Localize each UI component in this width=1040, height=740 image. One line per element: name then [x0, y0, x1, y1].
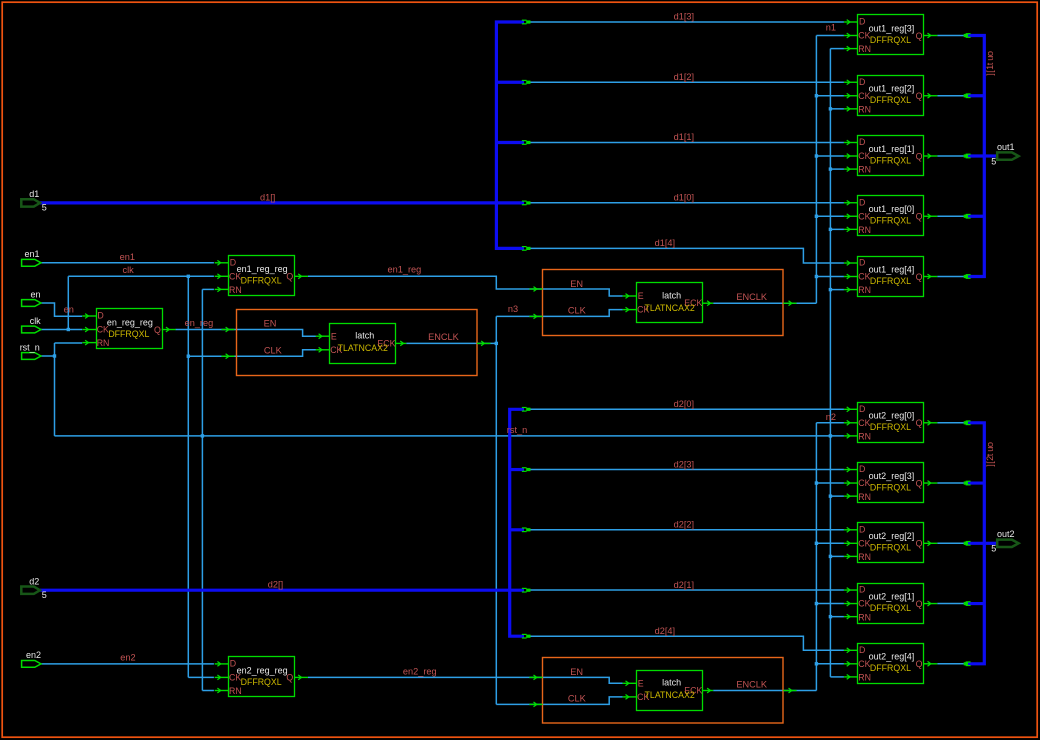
input bus port d2	[21, 577, 47, 600]
svg-text:Q: Q	[916, 659, 923, 669]
wire clk: branch to en2_reg_reg CK	[188, 676, 214, 678]
junction rst_n branch	[829, 167, 832, 170]
svg-text:d1: d1	[29, 189, 39, 199]
flip-flop out2_reg[1] (out2_reg[1] DFFRQXL)	[844, 584, 937, 624]
junction n1 branch	[815, 94, 818, 97]
wire rst_n: branch to out1_reg RN row 3	[830, 228, 844, 230]
svg-text:ENCLK: ENCLK	[736, 680, 768, 690]
wire out1[0] Q	[937, 215, 964, 217]
svg-text:out2_reg[4]: out2_reg[4]	[869, 652, 915, 662]
svg-text:CLK: CLK	[568, 306, 587, 316]
wire rst_n: branch to out2_reg RN row 4	[830, 676, 844, 678]
wire out2[0] Q	[937, 422, 964, 424]
svg-text:Q: Q	[916, 212, 923, 222]
svg-text:n1: n1	[826, 22, 836, 32]
flip-flop out2_reg[0] (out2_reg[0] DFFRQXL)	[844, 403, 937, 443]
bus out1 vertical trunk	[967, 36, 984, 277]
svg-text:CLK: CLK	[264, 345, 283, 355]
svg-text:Q: Q	[916, 539, 923, 549]
junction n1 branch	[815, 275, 818, 278]
svg-text:RN: RN	[858, 44, 871, 54]
wire n3: latch U4 ECK output	[406, 342, 496, 344]
flip-flop out1_reg[1] (out1_reg[1] DFFRQXL)	[844, 136, 937, 176]
bus out1 rip	[967, 94, 984, 97]
boundary arrows U5	[529, 288, 542, 290]
svg-text:1: 1	[985, 65, 995, 70]
svg-text:u: u	[985, 447, 995, 452]
wire clk: main vertical distribution	[187, 276, 189, 677]
svg-text:Q: Q	[916, 31, 923, 41]
bus ripper Q side	[964, 94, 968, 97]
input port en	[22, 289, 41, 306]
wire out2[1] Q	[937, 603, 964, 605]
svg-text:D: D	[859, 17, 865, 27]
svg-text:o: o	[985, 442, 995, 447]
svg-text:RN: RN	[858, 285, 871, 295]
svg-text:clk: clk	[30, 316, 41, 326]
wire rst_n: branch to out1_reg RN row 2	[830, 168, 844, 170]
svg-text:RN: RN	[97, 338, 110, 348]
junction clk/riser	[67, 328, 70, 331]
wire n1: latch U5 ECK output	[713, 302, 816, 304]
bus ripper Q side	[964, 215, 968, 218]
wire out1[4] Q	[937, 276, 964, 278]
svg-text:2: 2	[985, 456, 995, 461]
bus out2 to port	[984, 542, 997, 545]
svg-text:out1: out1	[997, 142, 1015, 152]
svg-text:clk: clk	[123, 265, 135, 275]
wire out2[3] Q	[937, 482, 964, 484]
svg-text:n2: n2	[826, 412, 836, 422]
wire d1[0]	[530, 202, 844, 204]
svg-text:en2_reg: en2_reg	[403, 667, 437, 677]
svg-text:D: D	[859, 464, 865, 474]
bus d2 rip d2[3]	[510, 468, 524, 471]
svg-text:out1_reg[3]: out1_reg[3]	[869, 23, 915, 33]
wire d1[1]	[530, 142, 844, 144]
svg-text:DFFRQXL: DFFRQXL	[870, 35, 911, 45]
bus d1 rip d1[2]	[496, 81, 524, 84]
input bus port d1	[21, 189, 47, 212]
svg-text:n3: n3	[508, 304, 518, 314]
hierarchy box U5 (clock gate en1)	[543, 270, 784, 336]
wire n2: latch U6 ECK output	[713, 690, 816, 692]
svg-text:DFFRQXL: DFFRQXL	[870, 422, 911, 432]
wire n2: branch to out2_reg CK row 0	[816, 422, 844, 424]
boundary arrows U4	[221, 329, 234, 331]
svg-text:DFFRQXL: DFFRQXL	[108, 329, 149, 339]
bus ripper Q side	[964, 275, 968, 278]
flip-flop out2_reg[3] (out2_reg[3] DFFRQXL)	[844, 463, 937, 503]
svg-text:Q: Q	[154, 325, 161, 335]
bus ripper Q side	[964, 662, 968, 665]
svg-text:DFFRQXL: DFFRQXL	[870, 276, 911, 286]
svg-text:en_reg: en_reg	[185, 318, 214, 328]
wire en2: port to en2_reg_reg D	[41, 663, 214, 665]
svg-text:5: 5	[991, 157, 996, 167]
svg-text:en2_reg_reg: en2_reg_reg	[237, 665, 288, 675]
flip-flop out1_reg[0] (out1_reg[0] DFFRQXL)	[844, 196, 937, 236]
svg-text:D: D	[859, 645, 865, 655]
svg-text:d1[4]: d1[4]	[655, 238, 675, 248]
bus d1 rip d1[1]	[496, 141, 524, 144]
wire n2: branch to out2_reg CK row 4	[816, 663, 844, 665]
junction rst_n branch	[829, 107, 832, 110]
svg-text:D: D	[859, 77, 865, 87]
svg-text:RN: RN	[858, 492, 871, 502]
svg-text:en2: en2	[26, 650, 41, 660]
svg-text:d1[3]: d1[3]	[674, 12, 694, 22]
wire n2: branch to out2_reg CK row 2	[816, 542, 844, 544]
svg-text:en: en	[31, 289, 41, 299]
wire n1: branch to out1_reg CK row 4	[816, 276, 844, 278]
junction rst_n branch	[829, 288, 832, 291]
wire n2: vertical to CK pins	[815, 423, 817, 691]
junction n2 branch	[815, 542, 818, 545]
junction n2 branch	[815, 662, 818, 665]
bus ripper Q side	[964, 481, 968, 484]
wire rst_n: mid vertical	[201, 289, 203, 690]
wire out1[1] Q	[937, 155, 964, 157]
bus ripper Q side	[964, 34, 968, 37]
wire d1[2]	[530, 81, 844, 83]
svg-text:DFFRQXL: DFFRQXL	[870, 95, 911, 105]
svg-text:d2[4]: d2[4]	[655, 626, 675, 636]
svg-text:RN: RN	[858, 612, 871, 622]
wire out1[2] Q	[937, 95, 964, 97]
wire rst_n: branch to en2_reg_reg RN	[202, 690, 214, 692]
wire rst_n: branch to out1_reg RN row 4	[830, 289, 844, 291]
svg-text:D: D	[859, 404, 865, 414]
svg-text:u: u	[985, 56, 995, 61]
svg-text:D: D	[859, 585, 865, 595]
wire en_reg: en_reg_reg Q to latch U4 E	[176, 330, 316, 337]
wire n1: branch to out1_reg CK row 1	[816, 95, 844, 97]
junction n3	[495, 342, 498, 345]
svg-text:DFFRQXL: DFFRQXL	[241, 677, 282, 687]
svg-text:D: D	[230, 659, 236, 669]
bus ripper Q side	[964, 542, 968, 545]
junction n2 branch	[815, 602, 818, 605]
junction n1 branch	[815, 154, 818, 157]
svg-text:E: E	[331, 331, 337, 341]
svg-text:Q: Q	[916, 599, 923, 609]
svg-text:RN: RN	[229, 686, 242, 696]
wire en1_reg: en1_reg_reg Q to latch U5 E	[308, 276, 623, 296]
wire d1[4]	[530, 248, 844, 263]
junction rst_n branch	[829, 494, 832, 497]
svg-text:TLATNCAX2: TLATNCAX2	[645, 303, 695, 313]
svg-text:rst_n: rst_n	[507, 425, 527, 435]
wire n3: branch to latch U5 CK	[496, 310, 622, 317]
svg-text:Q: Q	[916, 91, 923, 101]
bus ripper	[522, 527, 527, 529]
hierarchy box U4 (clock gate en)	[237, 310, 478, 376]
svg-text:d2[1]: d2[1]	[674, 580, 694, 590]
svg-text:out1_reg[1]: out1_reg[1]	[869, 144, 915, 154]
svg-text:DFFRQXL: DFFRQXL	[241, 276, 282, 286]
bus ripper Q side	[964, 602, 968, 605]
junction clk to latch U4	[187, 355, 190, 358]
flip-flop en_reg_reg (en_reg_reg DFFRQXL)	[82, 309, 175, 349]
svg-text:d2[]: d2[]	[268, 580, 283, 590]
wire rst_n: branch to out1_reg RN row 1	[830, 108, 844, 110]
wire n1: branch to out1_reg CK row 3	[816, 215, 844, 217]
flip-flop out2_reg[4] (out2_reg[4] DFFRQXL)	[844, 644, 937, 684]
output bus port out1	[991, 142, 1018, 167]
wire rst_n: branch to out2_reg RN row 3	[830, 616, 844, 618]
svg-text:DFFRQXL: DFFRQXL	[870, 663, 911, 673]
wire n3: branch to latch U6 CK	[496, 697, 622, 705]
svg-text:TLATNCAX2: TLATNCAX2	[338, 343, 388, 353]
svg-text:Q: Q	[916, 418, 923, 428]
wire rst_n: branch to en1_reg_reg RN	[202, 288, 214, 290]
hierarchy box U6 (clock gate en2)	[543, 658, 784, 724]
svg-text:d2: d2	[29, 577, 39, 587]
bus out1 rip	[967, 154, 984, 157]
svg-text:Q: Q	[916, 478, 923, 488]
svg-text:o: o	[985, 51, 995, 56]
latch U6 (latch TLATNCAX2)	[623, 671, 714, 711]
wire n2: branch to out2_reg CK row 1	[816, 482, 844, 484]
wire d2[2]	[530, 529, 844, 531]
svg-text:]: ]	[985, 73, 995, 76]
svg-text:D: D	[859, 197, 865, 207]
svg-text:RN: RN	[229, 285, 242, 295]
svg-text:en1_reg_reg: en1_reg_reg	[237, 264, 288, 274]
wire n3: vertical	[495, 316, 497, 704]
bus out2 rip	[967, 542, 984, 545]
svg-text:DFFRQXL: DFFRQXL	[870, 155, 911, 165]
svg-text:DFFRQXL: DFFRQXL	[870, 216, 911, 226]
bus ripper	[522, 633, 527, 635]
bus out1 to port	[984, 154, 997, 157]
input port rst_n	[20, 342, 41, 359]
svg-text:out2_reg[1]: out2_reg[1]	[869, 591, 915, 601]
input port clk	[22, 316, 42, 333]
wire d2[4]	[530, 636, 844, 650]
wire n1: branch to out1_reg CK row 2	[816, 155, 844, 157]
svg-text:5: 5	[42, 590, 47, 600]
junction rst_n branch	[829, 615, 832, 618]
input port en2	[22, 650, 41, 667]
latch U5 (latch TLATNCAX2)	[623, 283, 714, 323]
bus d1 vertical trunk	[496, 22, 524, 248]
svg-text:ENCLK: ENCLK	[736, 292, 768, 302]
wire out2[4] Q	[937, 663, 964, 665]
wire en1: port to en1_reg_reg D	[41, 262, 214, 264]
svg-text:latch: latch	[355, 331, 374, 341]
svg-text:en1: en1	[25, 249, 40, 259]
wire rst_n: right vertical distribution	[829, 49, 831, 677]
svg-text:ENCLK: ENCLK	[428, 332, 460, 342]
svg-text:d1[2]: d1[2]	[674, 72, 694, 82]
wire n2: branch to out2_reg CK row 3	[816, 603, 844, 605]
wire rst_n: branch to en_reg_reg RN	[55, 342, 83, 344]
svg-text:DFFRQXL: DFFRQXL	[870, 543, 911, 553]
wire rst_n: branch to out2_reg RN row 1	[830, 495, 844, 497]
wire d2[1]	[530, 589, 844, 591]
bus ripper	[522, 79, 527, 81]
svg-text:out1_reg[0]: out1_reg[0]	[869, 204, 915, 214]
svg-text:RN: RN	[858, 552, 871, 562]
bus out1 rip	[967, 215, 984, 218]
svg-text:]: ]	[985, 464, 995, 467]
svg-text:5: 5	[42, 203, 47, 213]
svg-text:EN: EN	[264, 318, 277, 328]
bus ripper	[522, 407, 527, 409]
wire d2[0]	[530, 408, 844, 410]
wire rst_n: port stub	[41, 355, 55, 357]
output bus port out2	[991, 529, 1018, 554]
svg-text:RN: RN	[858, 432, 871, 442]
bus ripper d2[1]	[522, 587, 527, 589]
svg-text:RN: RN	[858, 673, 871, 683]
input port en1	[22, 249, 41, 266]
svg-text:d1[1]: d1[1]	[674, 132, 694, 142]
wire out2[2] Q	[937, 542, 964, 544]
junction rst_n right vertical	[829, 434, 832, 437]
bus ripper	[522, 19, 527, 21]
junction n2 branch	[815, 481, 818, 484]
bus ripper Q side	[964, 421, 968, 424]
svg-text:DFFRQXL: DFFRQXL	[870, 482, 911, 492]
svg-text:RN: RN	[858, 104, 871, 114]
latch U4 (latch TLATNCAX2)	[316, 324, 407, 364]
wire rst_n: left vertical	[54, 343, 56, 436]
svg-text:d2[3]: d2[3]	[674, 459, 694, 469]
svg-text:d1[0]: d1[0]	[674, 192, 694, 202]
svg-text:d2[0]: d2[0]	[674, 399, 694, 409]
svg-text:out1_reg[2]: out1_reg[2]	[869, 84, 915, 94]
flip-flop out1_reg[2] (out1_reg[2] DFFRQXL)	[844, 76, 937, 116]
svg-text:RN: RN	[858, 225, 871, 235]
svg-text:en1_reg: en1_reg	[388, 265, 422, 275]
wire d1[3]	[530, 21, 844, 23]
svg-text:E: E	[638, 678, 644, 688]
svg-text:out2_reg[3]: out2_reg[3]	[869, 471, 915, 481]
flip-flop out1_reg[3] (out1_reg[3] DFFRQXL)	[844, 15, 937, 55]
svg-text:out1_reg[4]: out1_reg[4]	[869, 264, 915, 274]
svg-text:D: D	[230, 257, 236, 267]
flip-flop out1_reg[4] (out1_reg[4] DFFRQXL)	[844, 257, 937, 297]
bus ripper d1[0]	[522, 200, 527, 202]
svg-text:E: E	[638, 291, 644, 301]
svg-text:en_reg_reg: en_reg_reg	[107, 317, 153, 327]
bus ripper	[522, 246, 527, 248]
wire clk: port to en_reg_reg CK	[41, 329, 82, 331]
svg-text:en2: en2	[120, 653, 135, 663]
svg-text:en1: en1	[120, 252, 135, 262]
bus d2 rip d2[2]	[510, 528, 524, 531]
bus ripper	[522, 467, 527, 469]
wire clk: branch to latch U4 CK	[188, 350, 316, 356]
bus ripper Q side	[964, 154, 968, 157]
svg-text:out2_reg[2]: out2_reg[2]	[869, 531, 915, 541]
svg-text:D: D	[97, 311, 103, 321]
svg-text:en: en	[64, 304, 74, 314]
svg-text:TLATNCAX2: TLATNCAX2	[645, 690, 695, 700]
svg-text:[: [	[985, 461, 995, 464]
junction rst_n branch	[829, 555, 832, 558]
wire rst_n: long horizontal to out2_reg[0] RN	[55, 435, 844, 437]
svg-text:D: D	[859, 524, 865, 534]
wire en2_reg: en2_reg_reg Q to latch U6 E	[308, 677, 623, 683]
junction n1 branch	[815, 215, 818, 218]
svg-text:out2: out2	[997, 529, 1015, 539]
junction rst_n port tee	[53, 354, 56, 357]
flip-flop out2_reg[2] (out2_reg[2] DFFRQXL)	[844, 523, 937, 563]
svg-text:Q: Q	[916, 272, 923, 282]
wire clk: upper run to en1_reg_reg CK	[68, 275, 214, 277]
svg-text:latch: latch	[662, 678, 681, 688]
wire en: port to en_reg_reg D	[41, 303, 82, 316]
svg-text:RN: RN	[858, 165, 871, 175]
svg-text:d2[2]: d2[2]	[674, 520, 694, 530]
junction rst_n branch	[829, 228, 832, 231]
wire rst_n: branch to out2_reg RN row 2	[830, 555, 844, 557]
bus ripper	[522, 140, 527, 142]
svg-text:out2_reg[0]: out2_reg[0]	[869, 411, 915, 421]
bus d1 horizontal	[40, 201, 524, 204]
svg-text:Q: Q	[916, 151, 923, 161]
boundary arrows U6	[529, 676, 542, 678]
wire clk: riser	[67, 276, 69, 329]
flip-flop en1_reg_reg (en1_reg_reg DFFRQXL)	[215, 256, 308, 296]
svg-text:latch: latch	[662, 290, 681, 300]
flip-flop en2_reg_reg (en2_reg_reg DFFRQXL)	[215, 657, 308, 697]
svg-text:rst_n: rst_n	[20, 342, 40, 352]
svg-text:5: 5	[991, 544, 996, 554]
svg-text:D: D	[859, 258, 865, 268]
wire rst_n: branch to out1_reg RN row 0	[830, 48, 844, 50]
wire n1: branch to out1_reg CK row 0	[816, 35, 844, 37]
svg-text:EN: EN	[570, 279, 583, 289]
junction clk vertical top	[187, 275, 190, 278]
wire d2[3]	[530, 469, 844, 471]
svg-text:EN: EN	[570, 667, 583, 677]
svg-text:d1[]: d1[]	[260, 192, 275, 202]
svg-text:[: [	[985, 70, 995, 73]
bus d2 vertical trunk	[510, 409, 524, 636]
svg-text:CLK: CLK	[568, 694, 587, 704]
wire out1[3] Q	[937, 35, 964, 37]
svg-text:DFFRQXL: DFFRQXL	[870, 603, 911, 613]
bus d2 horizontal	[40, 589, 524, 592]
bus out2 vertical trunk	[967, 423, 984, 664]
wire n1: vertical to CK pins	[815, 36, 817, 304]
bus out2 rip	[967, 602, 984, 605]
bus out2 rip	[967, 481, 984, 484]
svg-text:D: D	[859, 137, 865, 147]
junction rst_n mid vertical	[201, 434, 204, 437]
